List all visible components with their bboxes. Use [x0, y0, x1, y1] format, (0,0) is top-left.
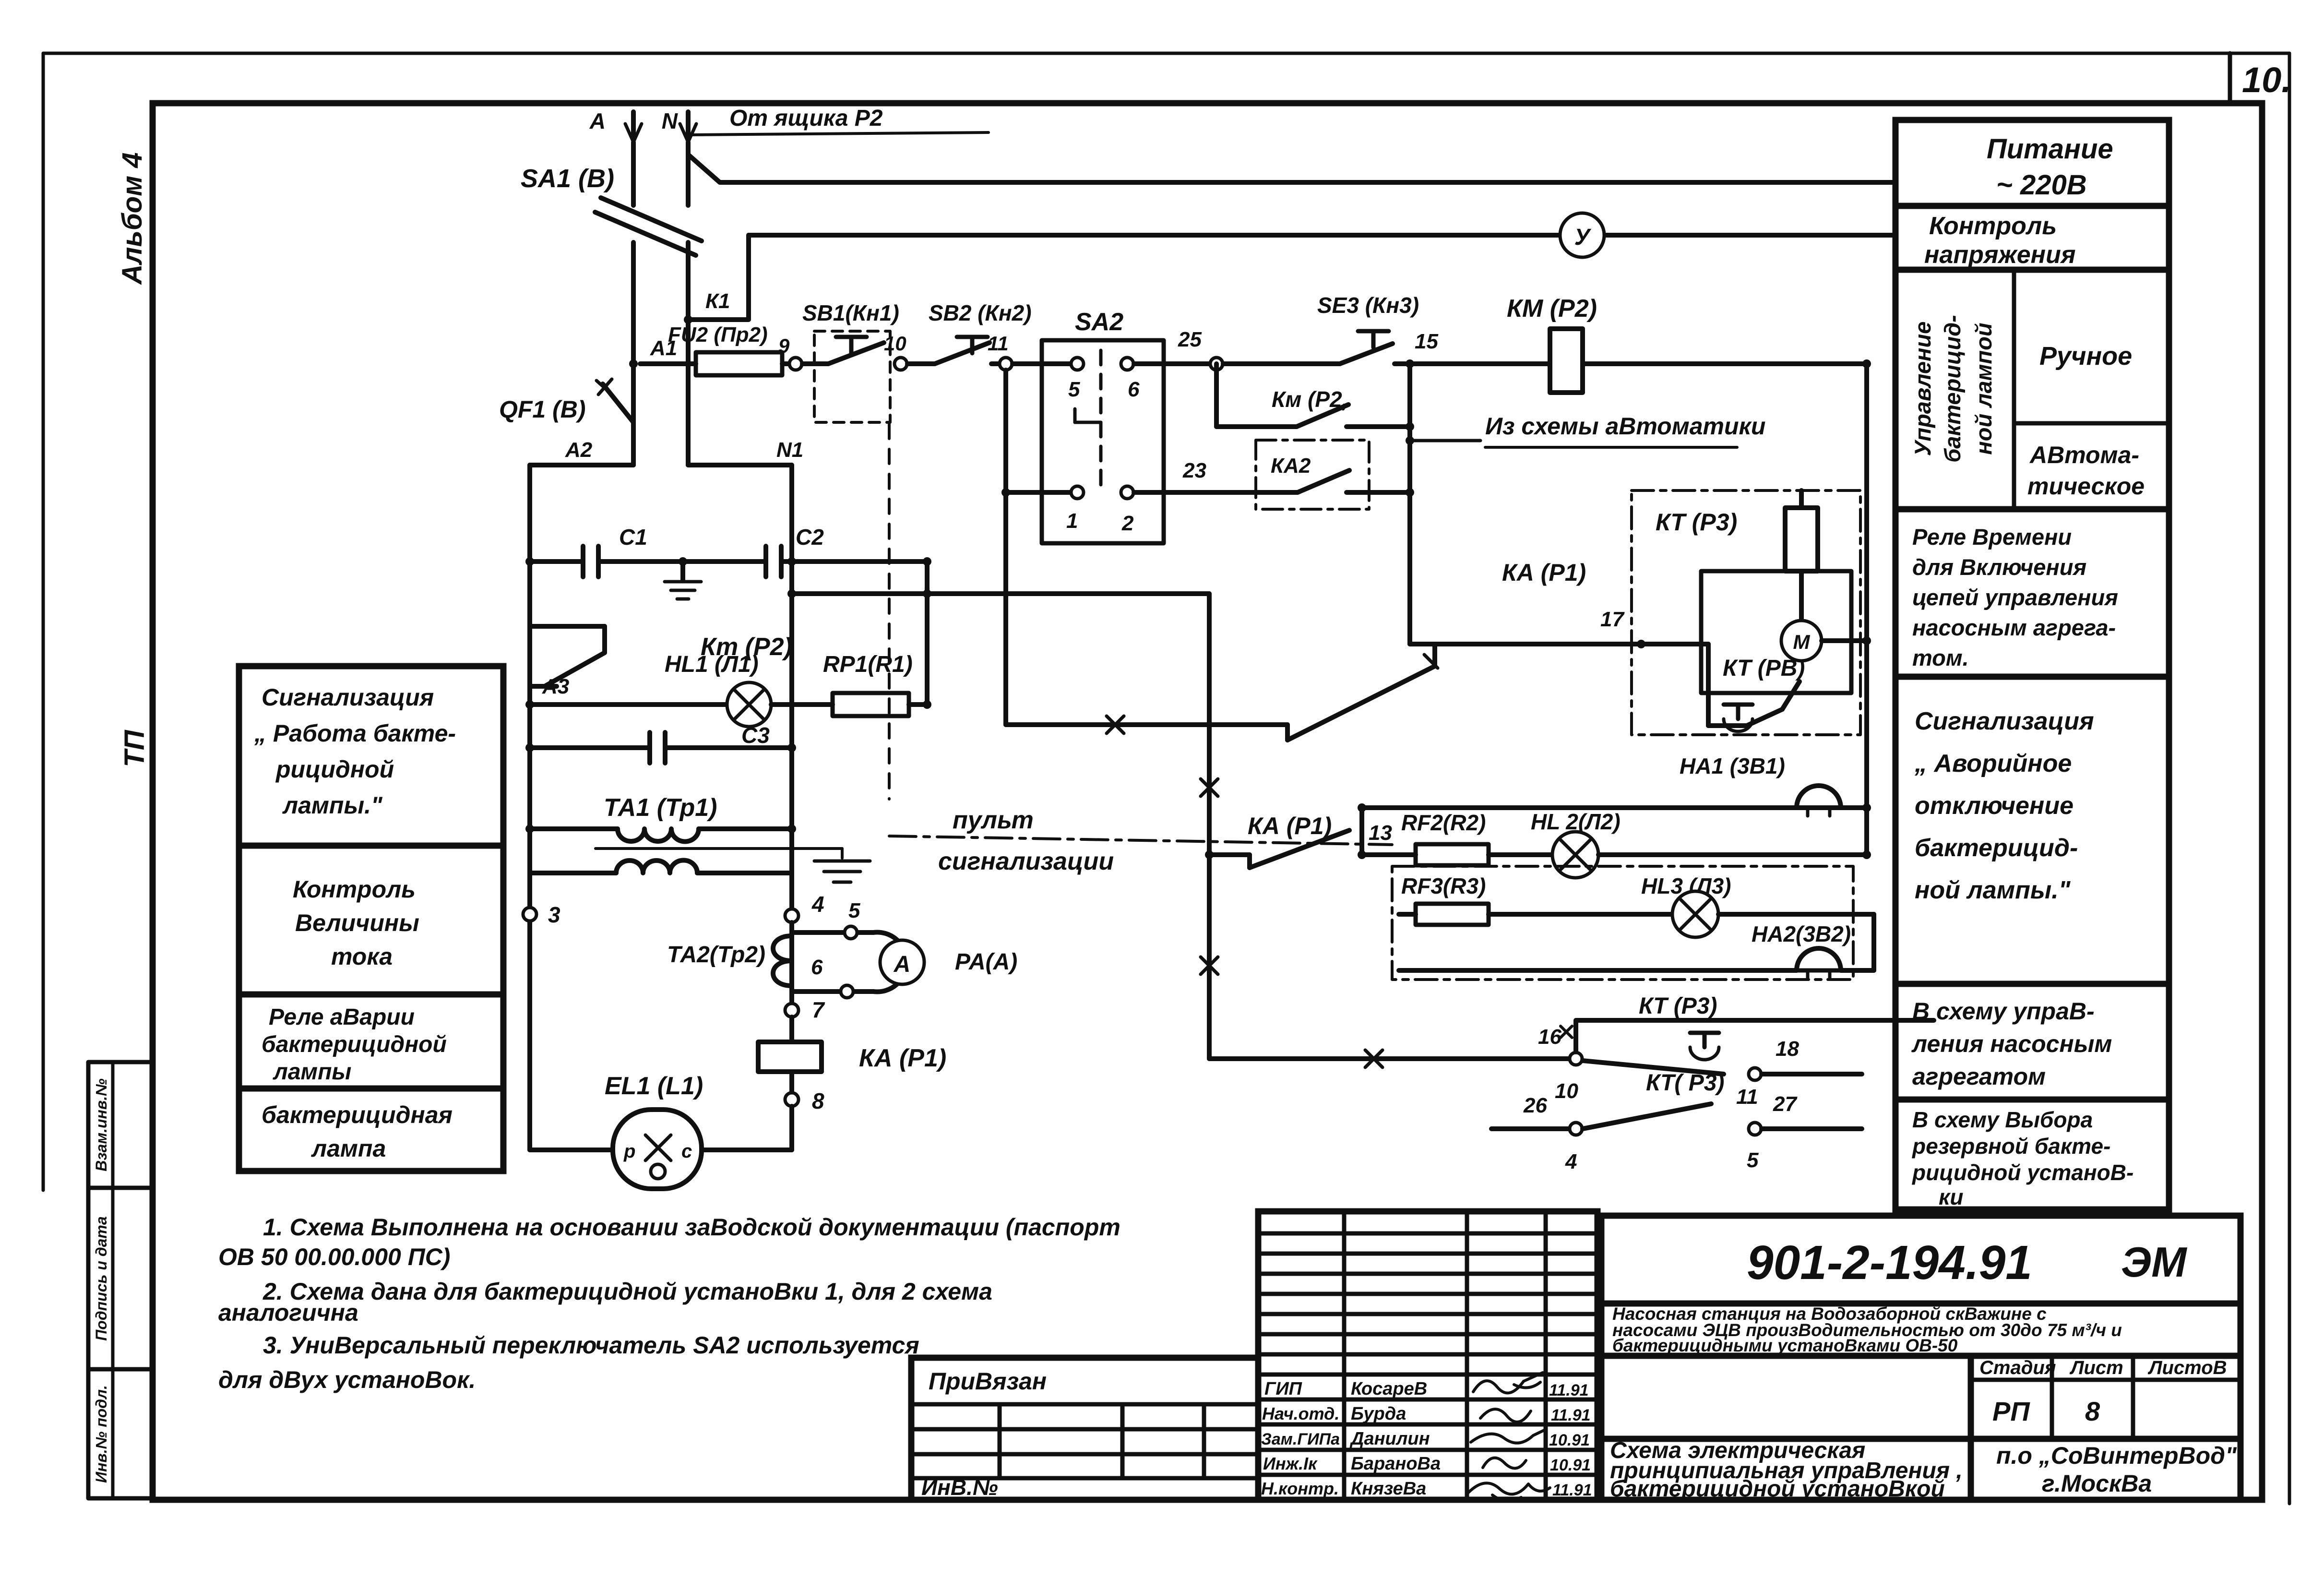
title block: revision table	[1258, 1211, 1597, 1500]
svg-text:Контроль: Контроль	[1929, 212, 2057, 240]
inner drawing frame	[153, 103, 2262, 1500]
svg-text:Альбом 4: Альбом 4	[117, 152, 148, 285]
fuse RF2	[1362, 810, 1552, 865]
left column box Реле аварии	[239, 994, 503, 1088]
svg-text:пульт: пульт	[953, 806, 1034, 834]
svg-text:В схему упраВ-: В схему упраВ-	[1912, 998, 2095, 1025]
svg-text:лампы.": лампы."	[282, 792, 383, 819]
svg-text:1. Схема Выполнена на основа: 1. Схема Выполнена на основании заВодско…	[263, 1214, 1120, 1241]
svg-text:НА2(3В2): НА2(3В2)	[1752, 921, 1851, 946]
left column box бактерицидная лампа	[239, 1088, 503, 1171]
svg-text:С1: С1	[619, 525, 647, 550]
svg-text:Сигнализация: Сигнализация	[262, 684, 434, 711]
svg-text:п.о „СоВинтерВод": п.о „СоВинтерВод"	[1996, 1442, 2237, 1469]
svg-text:11.91: 11.91	[1552, 1481, 1592, 1499]
node 16	[1570, 1052, 1582, 1065]
wire phase A down	[631, 142, 636, 205]
bell HA1	[1680, 753, 1841, 816]
svg-text:бактерицидной: бактерицидной	[262, 1032, 447, 1057]
svg-text:3. УниВерсальный переключател: 3. УниВерсальный переключатель SА2 испол…	[263, 1332, 919, 1359]
right column box В схему выбора	[1895, 1100, 2169, 1209]
svg-text:SВ1(Кн1): SВ1(Кн1)	[802, 300, 899, 325]
svg-text:У: У	[1574, 225, 1592, 250]
svg-text:насосным агрега-: насосным агрега-	[1912, 615, 2116, 640]
svg-text:бактерицидными устаноВками: бактерицидными устаноВками ОВ-50	[1612, 1336, 1958, 1355]
svg-text:8: 8	[2085, 1396, 2100, 1426]
right column box Сигнализация Аварийное отключение	[1895, 677, 2169, 984]
svg-text:Ручное: Ручное	[2039, 342, 2132, 371]
sheet number box	[2228, 53, 2232, 103]
reserve unit dash-dot box	[1392, 866, 1853, 980]
SA2 contact 5	[1013, 361, 1071, 366]
svg-text:Взам.инв.№: Взам.инв.№	[93, 1078, 110, 1172]
svg-text:КТ (Р3): КТ (Р3)	[1639, 993, 1717, 1019]
KT delayed contact upper	[1583, 993, 1724, 1074]
Стадия Лист Листов	[1968, 1356, 1974, 1500]
svg-text:КТ( Р3): КТ( Р3)	[1646, 1070, 1724, 1096]
svg-text:ления насосным: ления насосным	[1911, 1030, 2112, 1057]
bell HA2	[1752, 921, 1851, 979]
pult boundary dash-dot	[889, 836, 1392, 845]
svg-text:бактерицидная: бактерицидная	[262, 1101, 453, 1128]
button SB1	[802, 300, 899, 422]
svg-text:бактерицидной устаноВкой: бактерицидной устаноВкой	[1610, 1476, 1945, 1502]
svg-text:Инж.Iк: Инж.Iк	[1263, 1454, 1318, 1473]
X mark on row 16	[1365, 1050, 1382, 1067]
svg-text:КМ (Р2): КМ (Р2)	[1507, 295, 1597, 323]
svg-text:11: 11	[988, 332, 1009, 355]
svg-text:агрегатом: агрегатом	[1912, 1063, 2046, 1090]
svg-text:р: р	[623, 1141, 635, 1162]
svg-text:аналогична: аналогична	[218, 1299, 358, 1326]
svg-text:М: М	[1793, 631, 1811, 653]
title block: Привязан table	[911, 1358, 1258, 1500]
svg-text:для Включения: для Включения	[1912, 554, 2086, 580]
ground at TA1 screen	[814, 849, 870, 882]
svg-text:резервной бакте-: резервной бакте-	[1911, 1134, 2110, 1159]
svg-text:18: 18	[1776, 1037, 1799, 1061]
svg-text:Инв.№ подл.: Инв.№ подл.	[93, 1385, 110, 1483]
svg-text:А2: А2	[565, 438, 593, 462]
svg-text:ЛистоВ: ЛистоВ	[2147, 1357, 2227, 1378]
svg-text:НА1 (3В1): НА1 (3В1)	[1680, 753, 1785, 778]
node 8	[785, 1093, 799, 1106]
svg-text:ЕL1 (L1): ЕL1 (L1)	[605, 1072, 703, 1100]
node 25	[1210, 358, 1223, 370]
lamp row A3	[530, 702, 727, 707]
svg-text:SЕ3 (Кн3): SЕ3 (Кн3)	[1317, 293, 1419, 318]
svg-text:напряжения: напряжения	[1924, 241, 2075, 269]
svg-text:3: 3	[548, 902, 560, 927]
svg-text:N1: N1	[776, 438, 803, 462]
time relay KT box	[1632, 490, 1860, 735]
svg-text:ТП: ТП	[119, 729, 150, 767]
capacitor C3 row	[530, 745, 650, 750]
SA2 contact 2	[1121, 486, 1133, 499]
svg-text:ГИП: ГИП	[1264, 1379, 1302, 1399]
svg-text:тическое: тическое	[2027, 473, 2145, 500]
svg-text:КосареВ: КосареВ	[1351, 1379, 1427, 1399]
node 13	[1358, 850, 1366, 859]
lamp EL1	[530, 1072, 792, 1189]
svg-text:Данилин: Данилин	[1349, 1429, 1430, 1449]
KM seal-in contact from node 25	[1216, 364, 1410, 427]
svg-text:5: 5	[1747, 1148, 1759, 1172]
lamp HL1	[665, 652, 771, 727]
svg-text:Реле Времени: Реле Времени	[1912, 524, 2072, 550]
svg-text:С2: С2	[796, 525, 824, 550]
svg-text:8: 8	[812, 1088, 824, 1113]
stamp box Подпись и дата	[88, 1188, 153, 1369]
wire 23 and relay contact KA2	[1134, 440, 1414, 509]
relay contact KA P1 lower row 13	[1205, 813, 1349, 868]
svg-text:Контроль: Контроль	[293, 876, 416, 903]
node 3	[523, 908, 536, 921]
designation 901-2-194.91 ЭМ	[1601, 1301, 2241, 1307]
branch up from node 16	[1576, 1020, 1934, 1052]
svg-text:9: 9	[778, 335, 790, 357]
capacitor C1	[583, 525, 647, 577]
neutral N terminal arrow	[662, 108, 696, 142]
bell HA2 row	[1399, 968, 1797, 973]
corner N1	[688, 463, 792, 467]
vertical from node 15	[1407, 364, 1412, 644]
svg-text:Зам.ГИПа: Зам.ГИПа	[1261, 1430, 1340, 1448]
outer page border	[43, 52, 2289, 55]
svg-text:РП: РП	[1992, 1396, 2030, 1426]
KT delay contact	[1701, 644, 1800, 731]
svg-text:ОВ 50 00.00.000 ПС): ОВ 50 00.00.000 ПС)	[218, 1243, 450, 1270]
right column box Контроль напряжения	[1895, 206, 2169, 270]
svg-text:ИнВ.№: ИнВ.№	[921, 1475, 998, 1500]
node A1	[629, 359, 638, 368]
svg-text:SА2: SА2	[1075, 308, 1123, 336]
svg-text:Нач.отд.: Нач.отд.	[1262, 1404, 1339, 1423]
svg-text:Сигнализация: Сигнализация	[1915, 707, 2094, 735]
svg-text:ной лампы.": ной лампы."	[1915, 876, 2071, 904]
relay coil KA	[758, 1017, 946, 1093]
switch SA1	[521, 164, 702, 255]
svg-text:13: 13	[1369, 821, 1392, 845]
transformer TA1	[525, 794, 842, 873]
svg-text:сигнализации: сигнализации	[938, 848, 1114, 875]
ammeter loop	[792, 899, 907, 998]
svg-text:RF2(R2): RF2(R2)	[1401, 810, 1486, 835]
bell HA1 row	[1362, 805, 1867, 810]
svg-text:Бурда: Бурда	[1351, 1404, 1406, 1424]
feeder label от ящика Р2	[690, 106, 989, 135]
svg-text:HL1 (Л1): HL1 (Л1)	[665, 652, 759, 677]
svg-text:6: 6	[811, 956, 823, 979]
button SB3	[1223, 293, 1419, 364]
svg-text:10.91: 10.91	[1549, 1431, 1590, 1449]
capacitor C2	[766, 525, 824, 577]
svg-text:ЭМ: ЭМ	[2121, 1238, 2187, 1286]
svg-text:тока: тока	[331, 943, 393, 970]
svg-text:лампа: лампа	[311, 1135, 386, 1162]
svg-text:А3: А3	[542, 675, 569, 698]
contactor KM auxiliary contact	[530, 626, 792, 686]
capacitor C3	[650, 723, 770, 763]
svg-text:для дВух устаноВок.: для дВух устаноВок.	[218, 1366, 476, 1393]
svg-text:Питание: Питание	[1987, 133, 2113, 165]
svg-text:РА(А): РА(А)	[955, 949, 1017, 975]
lamp HL3	[1641, 873, 1874, 937]
svg-text:От ящика Р2: От ящика Р2	[729, 106, 883, 131]
svg-text:6: 6	[1128, 378, 1140, 401]
node 4	[785, 909, 799, 922]
node 15	[1406, 359, 1414, 368]
title block right part	[1601, 1216, 2241, 1500]
capacitor row wire	[530, 559, 583, 564]
svg-text:„ Аворийное: „ Аворийное	[1914, 750, 2072, 777]
wire K1 to bus	[688, 235, 749, 320]
svg-text:901-2-194.91: 901-2-194.91	[1747, 1236, 2032, 1290]
svg-text:N: N	[662, 108, 678, 133]
svg-text:бактерицид-: бактерицид-	[1915, 834, 2078, 862]
svg-text:15: 15	[1415, 330, 1438, 353]
wire 17 into KT box	[1432, 644, 1437, 666]
svg-text:Управление: Управление	[1910, 322, 1935, 456]
svg-text:ТА2(Тр2): ТА2(Тр2)	[667, 942, 765, 968]
svg-text:Лист: Лист	[2069, 1357, 2123, 1378]
svg-text:КТ (Р3): КТ (Р3)	[1656, 509, 1737, 536]
svg-text:16: 16	[1538, 1025, 1561, 1049]
svg-text:КА (Р1): КА (Р1)	[1502, 559, 1586, 586]
svg-text:11.91: 11.91	[1551, 1406, 1591, 1424]
svg-text:рицидной устаноВ-: рицидной устаноВ-	[1911, 1160, 2133, 1185]
svg-text:лампы: лампы	[273, 1059, 351, 1085]
motor symbol M	[1781, 621, 1871, 661]
node 9	[789, 358, 802, 370]
svg-text:27: 27	[1773, 1092, 1798, 1116]
svg-text:КнязеВа: КнязеВа	[1351, 1479, 1426, 1499]
svg-text:25: 25	[1178, 328, 1202, 351]
node 10	[894, 358, 907, 370]
svg-text:5: 5	[1068, 378, 1080, 401]
svg-text:АВтома-: АВтома-	[2029, 442, 2139, 468]
node 7	[785, 1004, 799, 1017]
neutral row to bus	[792, 591, 1209, 596]
KT contact row 26	[1491, 1070, 1862, 1173]
relay contact KA P1 upper	[1287, 559, 1586, 740]
left column box Сигнализация Работа лампы	[239, 666, 503, 846]
fuse RF3 row	[1399, 873, 1672, 925]
switch SA2 box	[1042, 308, 1164, 543]
breaker QF1	[499, 379, 633, 465]
vertical N1	[789, 465, 794, 909]
voltmeter PV	[1560, 213, 1604, 257]
svg-text:7: 7	[812, 997, 825, 1022]
svg-text:С3: С3	[741, 723, 770, 748]
right loop vertical	[1871, 914, 1876, 970]
node K1	[684, 315, 692, 324]
svg-text:отключение: отключение	[1915, 792, 2074, 820]
button SB2	[907, 300, 1032, 364]
svg-text:10.: 10.	[2242, 60, 2291, 100]
pult boundary dashed vertical	[888, 424, 891, 799]
X mark	[1107, 716, 1124, 733]
svg-text:1: 1	[1066, 509, 1078, 533]
svg-text:Из схемы аВтоматики: Из схемы аВтоматики	[1485, 413, 1765, 440]
stamp box Инв.№ подл.	[88, 1369, 153, 1498]
svg-text:том.: том.	[1912, 645, 1969, 670]
svg-text:г.МоскВа: г.МоскВа	[2042, 1470, 2152, 1497]
svg-text:11: 11	[1736, 1085, 1758, 1109]
svg-text:ТА1 (Тр1): ТА1 (Тр1)	[604, 794, 717, 822]
bus down from node 11	[1003, 370, 1008, 725]
left vertical bus	[527, 465, 532, 908]
top bus H1	[688, 155, 1895, 182]
KT PB inner box	[1701, 571, 1851, 693]
right vertical of capacitor block	[925, 562, 930, 705]
node 18	[1749, 1068, 1761, 1080]
SA2 contact 1	[1006, 490, 1071, 495]
X mark on bus	[1201, 779, 1218, 796]
resistor RP1	[771, 652, 927, 716]
svg-text:ПриВязан: ПриВязан	[929, 1368, 1047, 1395]
svg-text:КА2: КА2	[1271, 454, 1311, 478]
svg-text:2: 2	[1121, 512, 1134, 535]
svg-text:ки: ки	[1939, 1184, 1963, 1209]
node 11	[1000, 358, 1012, 370]
svg-text:10: 10	[884, 332, 906, 355]
svg-text:А: А	[894, 952, 911, 977]
svg-text:SВ2 (Кн2): SВ2 (Кн2)	[929, 300, 1032, 325]
bus H2 voltage control	[749, 233, 1561, 238]
svg-text:FU2 (Пр2): FU2 (Пр2)	[668, 323, 768, 347]
svg-text:с: с	[681, 1141, 692, 1162]
ground between C1 C2	[665, 557, 701, 599]
lamp HL2	[1531, 809, 1871, 878]
right column box Управление бактерицидной лампой	[1895, 270, 2169, 509]
svg-text:Реле аВарии: Реле аВарии	[269, 1004, 415, 1030]
svg-text:В схему Выбора: В схему Выбора	[1912, 1107, 2093, 1132]
svg-text:Величины: Величины	[295, 909, 419, 936]
KT contact row 16 wire	[1209, 1056, 1569, 1061]
svg-text:цепей управления: цепей управления	[1912, 585, 2118, 610]
object description	[1601, 1353, 2241, 1359]
svg-text:~ 220В: ~ 220В	[1996, 169, 2087, 201]
ammeter PA	[880, 940, 1017, 984]
contactor coil KM	[1410, 295, 1867, 393]
right vertical bus	[1864, 364, 1869, 855]
svg-text:рицидной: рицидной	[275, 756, 394, 783]
right column box Реле времени	[1895, 509, 2169, 677]
svg-text:5: 5	[848, 899, 860, 922]
svg-text:10.91: 10.91	[1550, 1456, 1591, 1474]
svg-text:КА (Р1): КА (Р1)	[859, 1044, 946, 1072]
svg-text:Км (Р2,: Км (Р2,	[1272, 387, 1348, 412]
control row: fuse FU2	[640, 323, 789, 375]
svg-text:К1: К1	[705, 289, 730, 313]
svg-text:QF1 (В): QF1 (В)	[499, 396, 586, 423]
svg-text:ной лампой: ной лампой	[1971, 323, 1996, 454]
svg-text:10: 10	[1555, 1079, 1578, 1103]
svg-text:БараноВа: БараноВа	[1351, 1454, 1441, 1474]
svg-text:4: 4	[1565, 1150, 1577, 1173]
svg-text:Н.контр.: Н.контр.	[1261, 1479, 1339, 1498]
KT coil	[1785, 490, 1818, 620]
bus from N row down	[1207, 594, 1212, 1059]
svg-text:„ Работа бакте-: „ Работа бакте-	[254, 720, 456, 747]
svg-text:SА1 (В): SА1 (В)	[521, 164, 614, 193]
svg-text:RР1(R1): RР1(R1)	[823, 652, 913, 677]
svg-text:4: 4	[811, 892, 824, 917]
feed row to KA contact	[1006, 722, 1287, 727]
corner A2	[530, 463, 633, 467]
svg-text:26: 26	[1523, 1094, 1547, 1117]
wire neutral down	[686, 142, 691, 205]
svg-text:Стадия: Стадия	[1979, 1357, 2056, 1378]
right column box Питание ~220В	[1895, 120, 2169, 206]
right column box В схему управления	[1895, 984, 2169, 1100]
svg-text:А: А	[589, 108, 606, 133]
svg-text:17: 17	[1600, 608, 1625, 631]
transformer TA2	[667, 922, 792, 1004]
svg-text:RF3(R3): RF3(R3)	[1401, 873, 1486, 898]
svg-text:КА (Р1): КА (Р1)	[1248, 813, 1332, 839]
svg-text:бактерицид-: бактерицид-	[1940, 315, 1965, 463]
wire from automation scheme	[1406, 413, 1765, 447]
svg-text:23: 23	[1182, 459, 1206, 482]
phase A terminal arrow	[589, 108, 642, 142]
stamp box Взам.инв.№	[88, 1062, 153, 1188]
svg-text:2. Схема дана для бактерици: 2. Схема дана для бактерицидной устаноВк…	[262, 1278, 992, 1305]
X mark on bus lower	[1201, 957, 1218, 974]
svg-text:11.91: 11.91	[1549, 1381, 1589, 1399]
svg-text:Подпись и дата: Подпись и дата	[93, 1216, 110, 1340]
left column box Контроль величины тока	[239, 846, 503, 994]
SA2 contact 6	[1121, 358, 1133, 370]
